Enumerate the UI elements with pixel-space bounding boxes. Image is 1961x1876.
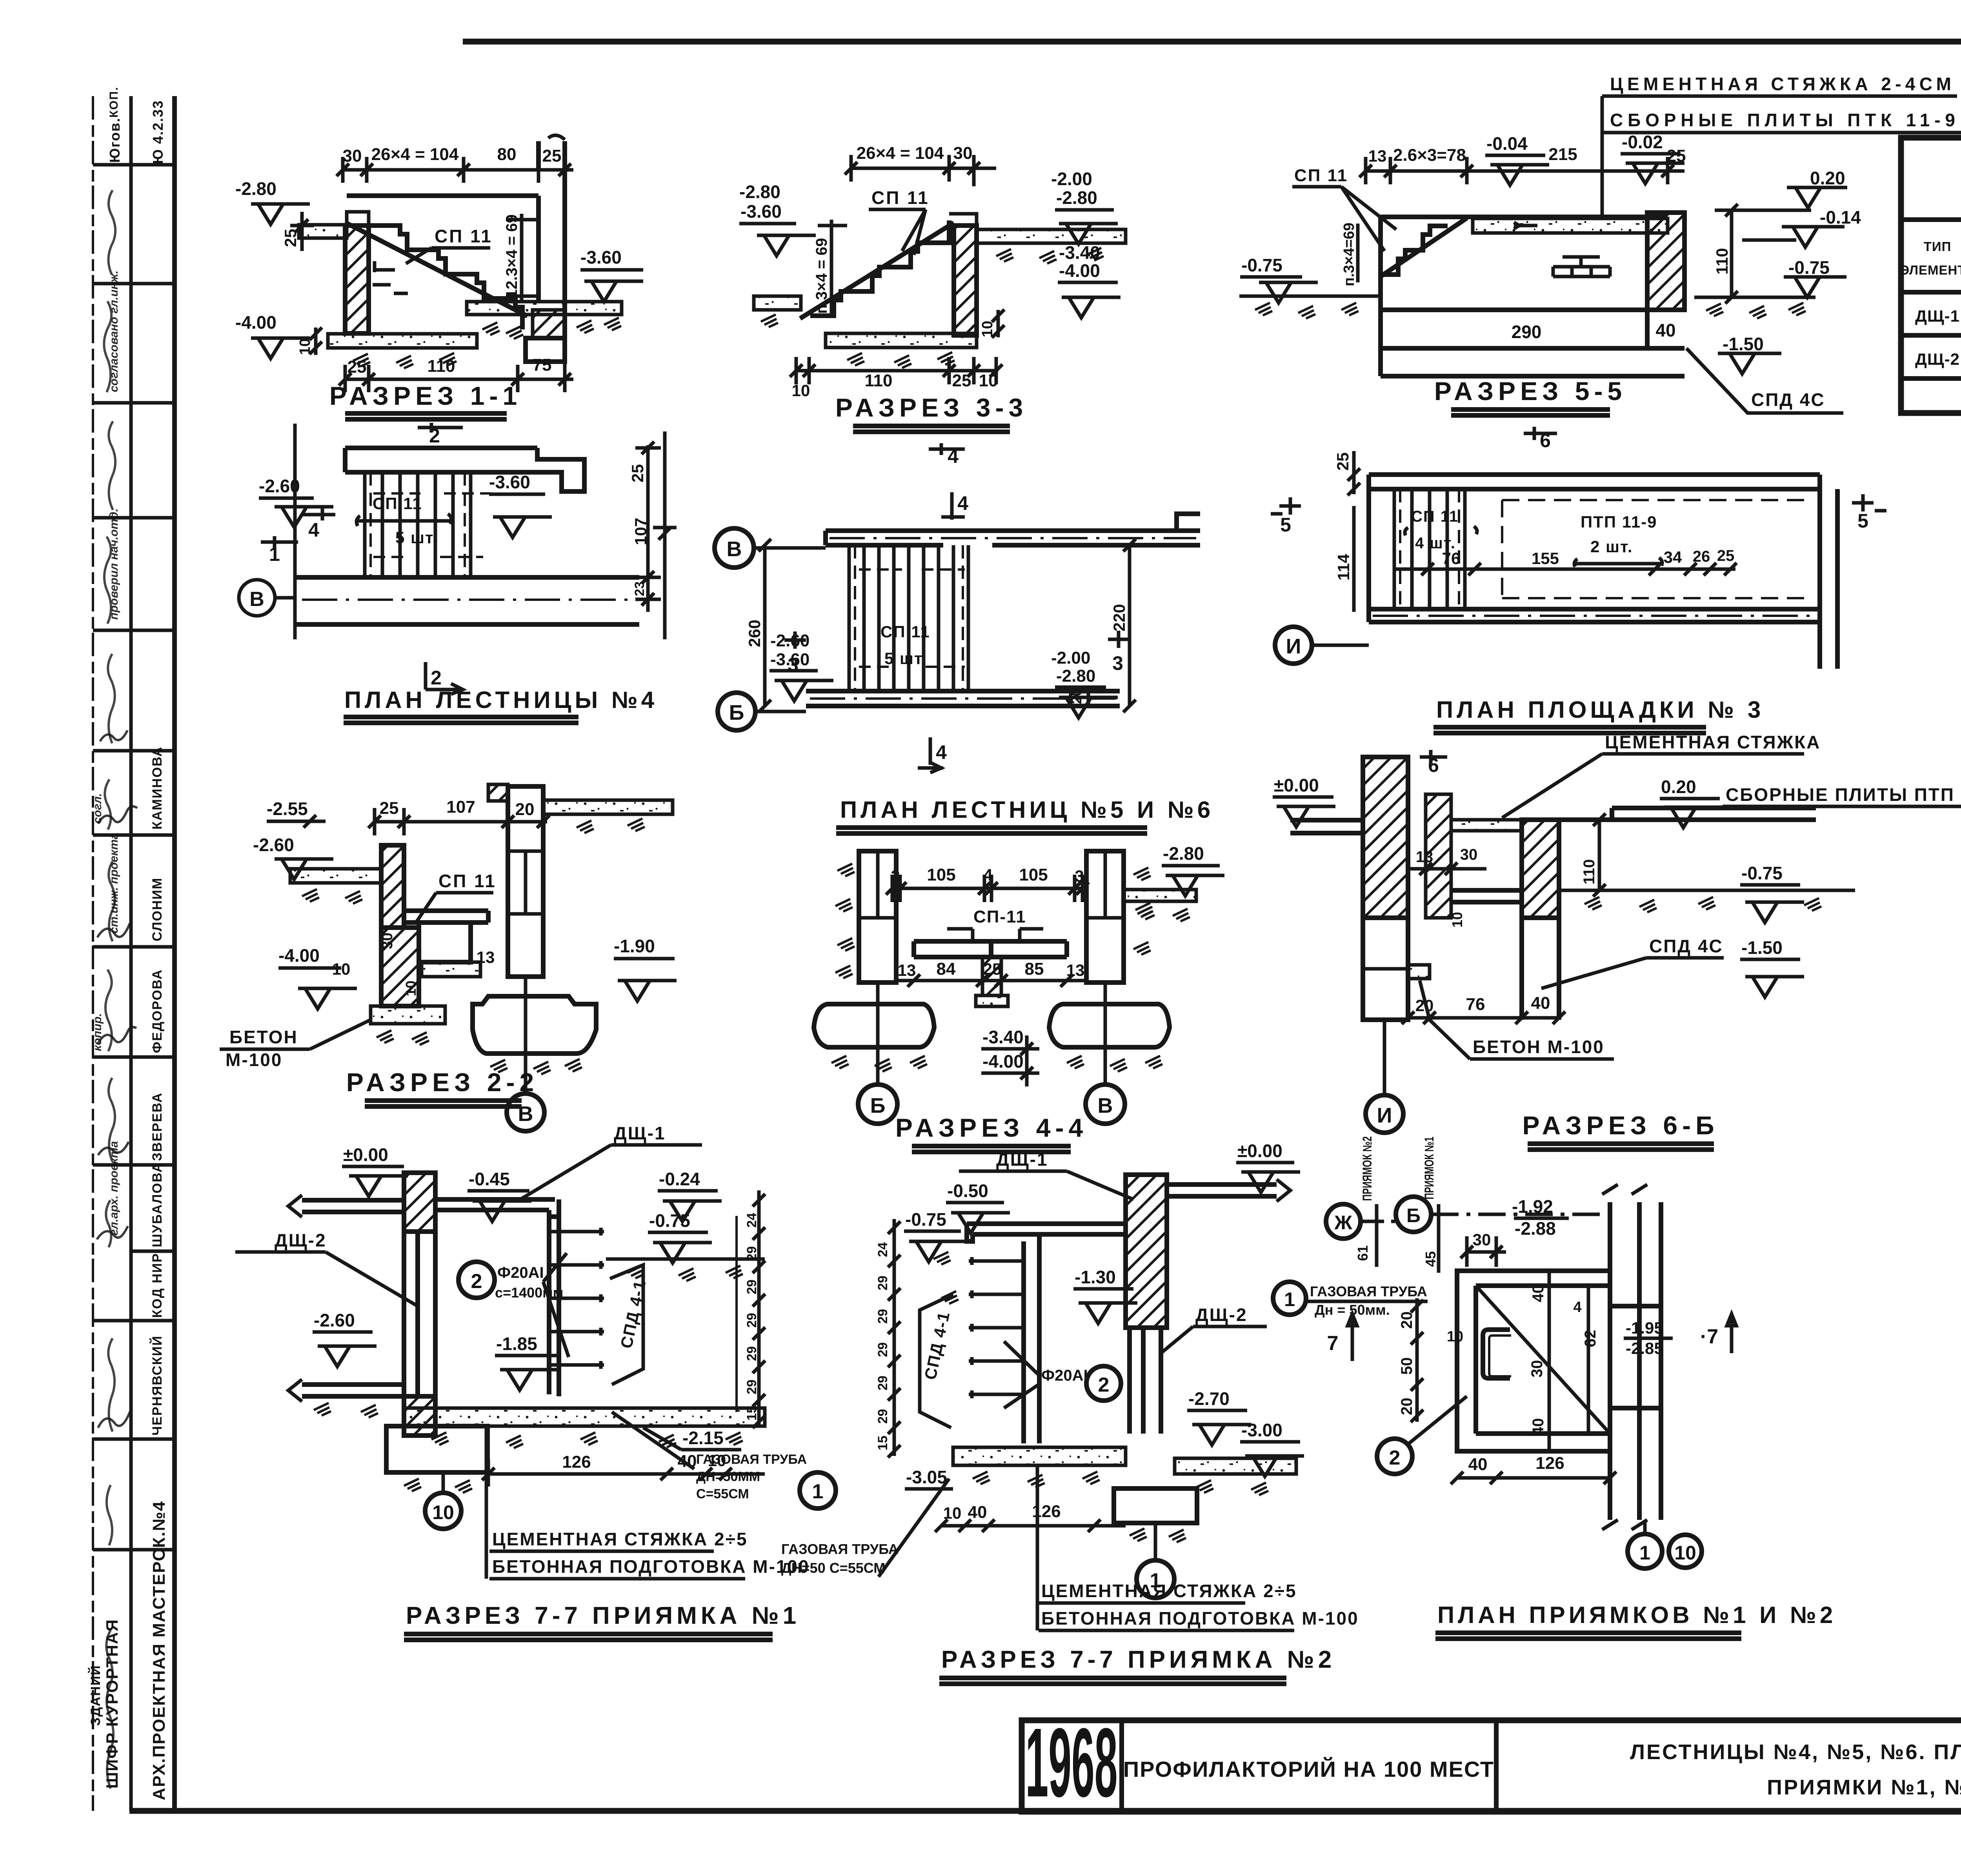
svg-text:45: 45: [1423, 1251, 1439, 1267]
svg-text:3: 3: [1112, 652, 1123, 674]
svg-text:±0.00: ±0.00: [343, 1145, 388, 1165]
svg-text:105: 105: [927, 865, 955, 884]
plan stair4: treads: [365, 472, 471, 577]
section 1-1: right slab at -3.60: [467, 302, 622, 315]
svg-text:1: 1: [1284, 1288, 1295, 1310]
svg-text:СБОРНЫЕ ПЛИТЫ ПТП 11-9: СБОРНЫЕ ПЛИТЫ ПТП 11-9: [1726, 784, 1961, 805]
pit1: rebar callout circle 2: [458, 1262, 495, 1298]
svg-text:±0.00: ±0.00: [1237, 1141, 1282, 1161]
plan platform3: vertical dim 114 left: [1352, 506, 1356, 612]
svg-text:5: 5: [1857, 510, 1868, 532]
svg-text:2.6×3=78: 2.6×3=78: [1393, 146, 1466, 165]
svg-text:Б: Б: [870, 1094, 886, 1117]
svg-text:ДН=50ММ: ДН=50ММ: [696, 1469, 760, 1484]
svg-text:107: 107: [631, 518, 650, 545]
pit2: pit floor slab: [953, 1447, 1126, 1465]
svg-text:20: 20: [1398, 1398, 1415, 1416]
svg-text:40: 40: [1655, 320, 1675, 340]
title block: [1022, 1708, 1961, 1817]
table 1 column headers: [1900, 227, 1961, 285]
svg-text:15: 15: [875, 1436, 890, 1450]
svg-text:-2.00: -2.00: [1051, 648, 1090, 668]
svg-text:40: 40: [1468, 1455, 1488, 1474]
svg-text:7: 7: [1327, 1332, 1339, 1355]
plan stair4: axis circle V: [239, 580, 275, 616]
pit2: right floor slab: [1175, 1458, 1296, 1474]
plan stairs 5-6: bottom wall band: [806, 691, 1120, 706]
section 1-1: vertical dim 10: [314, 328, 318, 355]
section 4-4: axis circles: [878, 983, 1105, 1084]
section 6-6: axis circle I: [1383, 1020, 1386, 1095]
svg-text:ЛЕСТНИЦЫ №4, №5, №6. ПЛОЩАДК: ЛЕСТНИЦЫ №4, №5, №6. ПЛОЩАДКА №3.: [1630, 1740, 1961, 1764]
svg-text:26×4 = 104: 26×4 = 104: [371, 145, 459, 164]
section 6-6: ground right: [1559, 889, 1855, 892]
plan platform3: axis circle I: [1275, 627, 1312, 664]
svg-text:РАЗРЕЗ 6-Б: РАЗРЕЗ 6-Б: [1522, 1111, 1719, 1140]
svg-text:В: В: [249, 588, 264, 611]
section 5-5: vertical dim n3x4-69: [1356, 224, 1360, 282]
section 1-1: left wall hatched: [345, 226, 369, 333]
section 2-2: left footing: [371, 1006, 445, 1024]
svg-text:-4.00: -4.00: [278, 945, 320, 966]
svg-text:10: 10: [1674, 1542, 1696, 1564]
pit1: cover slab: [435, 1199, 559, 1217]
pit1: circle 10: [442, 1472, 445, 1492]
svg-text:Югов.: Югов.: [107, 117, 123, 163]
svg-text:РАЗРЕЗ 5-5: РАЗРЕЗ 5-5: [1434, 377, 1626, 406]
svg-text:2: 2: [1098, 1374, 1110, 1396]
svg-text:ПЛАН ПЛОЩАДКИ № 3: ПЛАН ПЛОЩАДКИ № 3: [1436, 697, 1764, 723]
section 5-5: top dim line: [1366, 157, 1684, 184]
section 6-6: inner brick wall hatched: [1426, 794, 1451, 918]
svg-text:ПЛАН ПРИЯМКОВ №1 И №2: ПЛАН ПРИЯМКОВ №1 И №2: [1437, 1602, 1836, 1628]
svg-text:-0.02: -0.02: [1622, 132, 1663, 152]
svg-text:-0.75: -0.75: [1741, 863, 1783, 883]
svg-text:85: 85: [1025, 959, 1044, 979]
section 3-3: vertical dim 10: [997, 310, 1000, 337]
section 3-3: bottom dim line: [796, 357, 998, 384]
svg-text:0.20: 0.20: [1810, 168, 1845, 188]
plan stairs 5-6: axis circle V top: [715, 528, 754, 568]
svg-text:12.3×4 = 69: 12.3×4 = 69: [503, 214, 520, 298]
svg-text:Ю 4.2.33: Ю 4.2.33: [150, 100, 166, 164]
svg-text:10: 10: [792, 381, 810, 400]
pit2: cover slab: [967, 1224, 1126, 1241]
svg-text:-2.80: -2.80: [739, 182, 780, 202]
svg-text:п.3×4=69: п.3×4=69: [1341, 223, 1357, 286]
svg-text:2: 2: [431, 667, 442, 689]
section 5-5: right wall hatched: [1647, 213, 1684, 310]
section 2-2: top dim line: [375, 808, 547, 835]
section 1-1: right wall: [538, 141, 565, 338]
section 5-5: body outline: [1381, 217, 1684, 376]
table 1 data rows: [1915, 301, 1961, 375]
section 5-5: steps left interior: [1381, 226, 1448, 275]
pit1: left basement wall: [404, 1173, 435, 1232]
left stamp strip: outer verticals: [93, 96, 175, 1811]
svg-text:260: 260: [745, 620, 764, 647]
svg-text:25: 25: [952, 371, 971, 390]
svg-text:-2.00: -2.00: [1051, 169, 1092, 189]
svg-text:4: 4: [957, 492, 968, 514]
section 4-4: center support hatched: [982, 957, 1001, 995]
section 1-1: top dimension line: [343, 157, 573, 188]
svg-text:ДЩ-2: ДЩ-2: [275, 1230, 327, 1250]
svg-text:СП 11: СП 11: [871, 187, 930, 208]
svg-text:29: 29: [875, 1342, 890, 1357]
svg-text:И: И: [1377, 1104, 1392, 1127]
svg-text:-2.55: -2.55: [267, 799, 308, 819]
svg-text:-1.30: -1.30: [1075, 1267, 1116, 1287]
section 4-4: landing slabs: [914, 941, 1067, 957]
section 2-2: landing slab SP11: [404, 911, 488, 923]
svg-text:-2.70: -2.70: [1188, 1388, 1230, 1409]
plan stair4: bottom wall band: [295, 577, 639, 624]
svg-text:ПЛАН ЛЕСТНИЦЫ №4: ПЛАН ЛЕСТНИЦЫ №4: [344, 687, 658, 713]
svg-text:5: 5: [1280, 514, 1291, 536]
svg-text:29: 29: [744, 1346, 759, 1361]
svg-text:СП 11: СП 11: [435, 226, 493, 246]
svg-text:61: 61: [1355, 1245, 1371, 1261]
pit2: foundation block: [1114, 1488, 1197, 1523]
svg-text:290: 290: [1512, 322, 1542, 342]
section 4-4: right wall blocks: [1086, 851, 1124, 983]
svg-text:ГАЗОВАЯ ТРУБА: ГАЗОВАЯ ТРУБА: [696, 1452, 807, 1467]
svg-text:110: 110: [1581, 859, 1598, 884]
section 4-4: left wall blocks: [859, 851, 896, 983]
svg-text:25: 25: [281, 229, 300, 247]
svg-text:29: 29: [744, 1379, 759, 1394]
svg-text:СБОРНЫЕ ПЛИТЫ ПТК 11-9: СБОРНЫЕ ПЛИТЫ ПТК 11-9: [1610, 110, 1955, 130]
svg-text:ЧЕРНЯВСКИЙ: ЧЕРНЯВСКИЙ: [149, 1335, 165, 1436]
svg-text:СП 11: СП 11: [438, 871, 497, 891]
svg-text:ТИП: ТИП: [1924, 239, 1952, 254]
svg-text:РАЗРЕЗ 4-4: РАЗРЕЗ 4-4: [895, 1113, 1088, 1142]
plan stair4: left boundary line: [293, 424, 297, 639]
svg-text:ШУБАЛОВА: ШУБАЛОВА: [150, 1162, 165, 1247]
svg-text:-2.60: -2.60: [259, 476, 300, 496]
svg-text:2 шт.: 2 шт.: [1590, 537, 1633, 556]
pits plan: axis circle B: [1396, 1197, 1431, 1232]
section 3-3: right slab: [977, 229, 1126, 243]
svg-text:Б: Б: [729, 701, 744, 724]
svg-text:25: 25: [1717, 547, 1735, 564]
svg-text:-2.80: -2.80: [1056, 666, 1095, 686]
plan platform3: treads left: [1394, 489, 1465, 609]
svg-text:ЦЕМЕНТНАЯ СТЯЖКА: ЦЕМЕНТНАЯ СТЯЖКА: [1605, 732, 1821, 752]
svg-text:-0.75: -0.75: [1788, 257, 1830, 278]
svg-text:-2.80: -2.80: [1056, 187, 1097, 208]
svg-text:В: В: [1098, 1094, 1113, 1117]
svg-text:БЕТОННАЯ ПОДГОТОВКА М-100: БЕТОННАЯ ПОДГОТОВКА М-100: [492, 1556, 810, 1577]
sheet top border: [463, 39, 1961, 45]
svg-text:13: 13: [1066, 961, 1085, 979]
svg-text:-1.90: -1.90: [614, 936, 655, 956]
svg-text:СПД 4С: СПД 4С: [1649, 936, 1723, 956]
svg-text:С=55СМ: С=55СМ: [696, 1487, 749, 1501]
svg-text:согласовано гл.инж.: согласовано гл.инж.: [107, 271, 120, 392]
svg-text:ЦЕМЕНТНАЯ СТЯЖКА 2÷5: ЦЕМЕНТНАЯ СТЯЖКА 2÷5: [492, 1529, 748, 1549]
svg-text:СПД 4С: СПД 4С: [1751, 389, 1825, 410]
section 1-1: upper landing slab: [299, 225, 347, 238]
svg-text:10: 10: [297, 338, 313, 355]
svg-text:29: 29: [875, 1376, 890, 1390]
section 1-1: vertical dim 12.3x4=69: [506, 214, 537, 302]
svg-text:5 шт.: 5 шт.: [884, 649, 927, 668]
pits plan: top dims: [1467, 1236, 1506, 1267]
svg-text:СП 11: СП 11: [880, 622, 930, 641]
svg-text:ПТП 11-9: ПТП 11-9: [1581, 513, 1657, 531]
svg-text:34: 34: [1664, 548, 1682, 566]
svg-text:26: 26: [1693, 548, 1710, 565]
svg-text:13: 13: [898, 961, 916, 979]
svg-text:Б: Б: [1406, 1205, 1421, 1226]
svg-text:29: 29: [875, 1309, 890, 1324]
section 2-2: top right parapet hatched: [488, 784, 508, 801]
svg-text:-0.14: -0.14: [1820, 207, 1861, 227]
svg-text:ГАЗОВАЯ ТРУБА: ГАЗОВАЯ ТРУБА: [781, 1541, 899, 1557]
section 5-5: ceiling slab: [1473, 218, 1668, 233]
section 6-6: left floor slab: [1290, 820, 1363, 833]
pit1: ground right: [606, 1257, 765, 1261]
pit2: left vertical dim chain: [893, 1219, 896, 1456]
section 1-1: stair soffit diagonal: [347, 223, 528, 316]
svg-text:АРХ.ПРОЕКТНАЯ МАСТЕРСК.№4: АРХ.ПРОЕКТНАЯ МАСТЕРСК.№4: [149, 1501, 169, 1800]
svg-text:СПД 4-1: СПД 4-1: [921, 1310, 953, 1381]
svg-text:-3.05: -3.05: [906, 1467, 947, 1487]
svg-text:ДН=50 С=55СМ: ДН=50 С=55СМ: [781, 1560, 885, 1576]
stamp strip rotated names: [88, 86, 169, 1800]
svg-text:-2.80: -2.80: [1163, 843, 1204, 864]
svg-text:126: 126: [1535, 1454, 1564, 1473]
section 6-6: left wall hatched: [1363, 757, 1408, 918]
svg-text:25: 25: [347, 357, 367, 377]
svg-text:ДЩ-1: ДЩ-1: [614, 1123, 666, 1143]
svg-text:ЭЛЕМЕНТА: ЭЛЕМЕНТА: [1900, 263, 1961, 277]
stamp strip signature squiggles: [97, 730, 137, 1428]
section 3-3: bottom slab: [826, 333, 977, 348]
svg-text:ПРИЯМОК №1: ПРИЯМОК №1: [1422, 1137, 1436, 1199]
svg-text:126: 126: [562, 1452, 591, 1472]
section 6-6: bottom dims: [1408, 1016, 1559, 1020]
svg-text:ДЩ-2: ДЩ-2: [1195, 1305, 1248, 1325]
section 3-3: left small slab: [754, 296, 801, 310]
svg-text:В: В: [727, 537, 742, 561]
svg-text:-1.50: -1.50: [1723, 334, 1764, 354]
svg-text:25: 25: [380, 799, 399, 818]
pits plan: pit outline: [1457, 1271, 1610, 1451]
svg-text:СП 11: СП 11: [1294, 166, 1348, 185]
svg-text:проверил нач.отд.: проверил нач.отд.: [107, 508, 120, 620]
section 4-4: left footing: [814, 1004, 934, 1047]
svg-text:±0.00: ±0.00: [1274, 775, 1319, 795]
pit1: foundation block: [386, 1426, 488, 1472]
svg-text:2: 2: [471, 1270, 482, 1293]
pits plan: right wall band: [1610, 1202, 1661, 1520]
plan stair4: right dims: [635, 445, 661, 612]
svg-text:п.3×4 = 69: п.3×4 = 69: [813, 238, 830, 314]
svg-text:-3.60: -3.60: [489, 472, 530, 492]
section 2-2: left wall hatched: [381, 845, 404, 928]
section 1-1: ground marks: [353, 354, 370, 366]
svg-text:24: 24: [744, 1213, 759, 1228]
svg-text:КАМИНОВА: КАМИНОВА: [150, 746, 165, 830]
pit2: circle 1 bottom: [1154, 1523, 1157, 1560]
pit1: pit floor slab: [404, 1408, 765, 1426]
plan stair4: top wall band: [345, 448, 584, 491]
svg-text:24: 24: [875, 1242, 890, 1257]
svg-text:-3.60: -3.60: [740, 201, 782, 222]
svg-text:105: 105: [1019, 865, 1048, 884]
section 1-1: right wall hatched footing: [533, 310, 565, 338]
svg-text:40: 40: [1530, 1418, 1547, 1436]
section 3-3: top dim line: [851, 155, 996, 186]
svg-text:-2.80: -2.80: [235, 178, 277, 199]
plan platform3: outer walls: [1369, 475, 1837, 669]
svg-text:ДЩ-1: ДЩ-1: [1915, 307, 1960, 325]
svg-text:29: 29: [875, 1276, 890, 1290]
svg-text:10: 10: [432, 1501, 454, 1523]
svg-text:15: 15: [744, 1406, 759, 1421]
section 5-5: ground left: [1239, 295, 1381, 298]
svg-text:ПРОФИЛАКТОРИЙ НА 100 МЕСТ: ПРОФИЛАКТОРИЙ НА 100 МЕСТ: [1123, 1757, 1494, 1781]
svg-text:2: 2: [1389, 1447, 1401, 1469]
pits plan: circle 2 callout: [1377, 1439, 1412, 1474]
plan stairs 5-6: right vertical dim 220: [1128, 545, 1131, 706]
section 2-2: left slab: [290, 869, 381, 883]
pit2: axis circles Zh and B top right: [1326, 1204, 1361, 1239]
svg-text:10: 10: [403, 981, 419, 996]
svg-text:ЦЕМЕНТНАЯ СТЯЖКА 2÷5: ЦЕМЕНТНАЯ СТЯЖКА 2÷5: [1041, 1581, 1297, 1601]
section 2-2: right footing: [473, 996, 596, 1054]
plan stairs 5-6: treads: [849, 545, 968, 691]
section 1-1: small mark: [373, 261, 408, 293]
svg-text:80: 80: [497, 145, 517, 164]
plan platform3: slab dashed outline: [1502, 500, 1804, 598]
svg-text:-0.45: -0.45: [469, 1169, 510, 1189]
svg-text:Ж: Ж: [1334, 1212, 1352, 1234]
svg-text:-2.60: -2.60: [253, 835, 294, 855]
svg-text:10: 10: [979, 321, 996, 337]
svg-text:30: 30: [343, 146, 362, 166]
plan stairs 5-6: axis circle B bottom: [718, 693, 755, 730]
svg-text:20: 20: [1398, 1312, 1415, 1329]
svg-text:ПРИЯМКИ №1, №2.: ПРИЯМКИ №1, №2.: [1767, 1776, 1961, 1799]
plan stair4: walking line bracket: [357, 514, 451, 526]
svg-text:50: 50: [1398, 1357, 1415, 1375]
svg-text:-0.24: -0.24: [659, 1169, 700, 1189]
pit1: bottom dim line: [488, 1459, 765, 1487]
svg-text:40: 40: [1530, 1285, 1547, 1303]
pit1: upper floor slab left: [302, 1200, 404, 1212]
svg-text:СП-11: СП-11: [973, 907, 1026, 926]
svg-text:-4.00: -4.00: [235, 312, 277, 333]
plan stairs 5-6: left vertical dim 260: [763, 545, 767, 706]
pit2: ground left: [933, 1252, 951, 1265]
section 1-1: stair steps: [369, 226, 522, 329]
svg-text:23: 23: [632, 581, 647, 596]
svg-text:-0.75: -0.75: [1241, 255, 1282, 275]
svg-text:4: 4: [308, 519, 319, 541]
svg-text:84: 84: [937, 959, 956, 979]
svg-text:Ф20АI: Ф20АI: [497, 1264, 544, 1281]
svg-text:СП 11: СП 11: [373, 494, 422, 513]
svg-text:ДЩ-2: ДЩ-2: [1915, 350, 1960, 368]
svg-text:-1.95: -1.95: [1626, 1319, 1663, 1337]
pit2: right basement wall hatched: [1126, 1175, 1167, 1328]
section 5-5: brick symbol: [1553, 257, 1610, 277]
pit2: door DSh-2: [1130, 1328, 1167, 1434]
svg-text:-2.15: -2.15: [682, 1428, 724, 1448]
svg-text:РАЗРЕЗ 2-2: РАЗРЕЗ 2-2: [346, 1068, 538, 1097]
pit1: lower floor slab left: [302, 1385, 404, 1396]
section 6-6: small footing pad: [1408, 965, 1430, 979]
section 3-3: vertical dim n3x4=69: [818, 220, 847, 314]
svg-text:с=1400мм: с=1400мм: [495, 1285, 563, 1301]
svg-text:0.20: 0.20: [1661, 777, 1696, 797]
svg-text:ЗВЕРЕВА: ЗВЕРЕВА: [150, 1092, 165, 1161]
svg-text:110: 110: [427, 357, 455, 376]
svg-text:ФЕДОРОВА: ФЕДОРОВА: [150, 969, 165, 1053]
svg-text:М-100: М-100: [226, 1050, 282, 1070]
section 3-3: right wall hatched with curb: [954, 226, 977, 335]
svg-text:И: И: [1286, 635, 1301, 658]
svg-text:-3.40: -3.40: [1059, 242, 1100, 263]
svg-text:29: 29: [875, 1409, 890, 1424]
svg-text:-2.85: -2.85: [1626, 1339, 1663, 1357]
svg-text:-4.00: -4.00: [1059, 260, 1100, 281]
svg-text:215: 215: [1548, 145, 1577, 164]
section 4-4: top dim line: [892, 875, 1082, 902]
svg-text:220: 220: [1110, 604, 1128, 631]
section 1-1: vertical dim 25 left: [290, 212, 314, 251]
section 2-2: axis circle V: [524, 977, 528, 1094]
svg-text:СЛОНИМ: СЛОНИМ: [150, 877, 165, 941]
stamp strip column 1 handwritten pseudo-text: [91, 271, 120, 1236]
plan stairs 5-6: top wall band: [826, 514, 1200, 545]
section 4-4: right footing: [1049, 1004, 1170, 1047]
section 1-1: bottom dim line: [345, 353, 573, 392]
svg-text:4: 4: [983, 866, 993, 884]
pits plan: bottom dims: [1457, 1476, 1610, 1480]
svg-text:-3.40: -3.40: [982, 1027, 1024, 1047]
svg-text:25: 25: [983, 960, 1002, 978]
svg-text:30: 30: [1528, 1360, 1546, 1378]
svg-text:РАЗРЕЗ 3-3: РАЗРЕЗ 3-3: [835, 393, 1028, 422]
svg-text:КОД НИР: КОД НИР: [150, 1253, 165, 1318]
pits plan: bracket symbol: [1483, 1330, 1510, 1378]
svg-text:30: 30: [1460, 846, 1478, 863]
svg-text:10: 10: [1447, 1328, 1463, 1345]
svg-text:30: 30: [1473, 1230, 1491, 1249]
svg-text:25: 25: [628, 464, 647, 482]
svg-text:3: 3: [788, 654, 799, 676]
svg-text:согл.: согл.: [91, 793, 104, 824]
plan platform3: interior dims: [1394, 568, 1735, 571]
pits plan: circles 1 and 10 bottom: [1643, 1520, 1647, 1533]
section 5-5: right ground ledge lines: [1715, 210, 1811, 240]
svg-text:10: 10: [979, 371, 998, 390]
svg-text:-3.00: -3.00: [1241, 1420, 1282, 1440]
svg-text:13: 13: [477, 948, 495, 966]
section 4-4: interior dims: [896, 979, 1086, 983]
pits plan: pit diagonal: [1476, 1286, 1610, 1434]
svg-text:ГАЗОВАЯ ТРУБА: ГАЗОВАЯ ТРУБА: [1310, 1283, 1427, 1299]
svg-text:76: 76: [1442, 549, 1461, 568]
svg-text:3: 3: [1075, 867, 1084, 885]
stamp strip column 1 handwritten vertical scrawls: [104, 190, 115, 1789]
section 2-2: right wall blocks: [508, 786, 543, 977]
